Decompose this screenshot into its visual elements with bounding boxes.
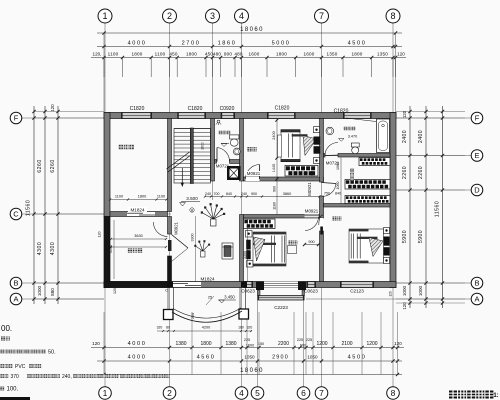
exterior wall bottom sunroom dark	[104, 282, 170, 288]
svg-text:M1824: M1824	[200, 277, 214, 282]
svg-text:1100: 1100	[115, 195, 123, 199]
svg-text:4: 4	[239, 11, 244, 21]
svg-text:3630: 3630	[134, 234, 142, 238]
grid bubble 2 bottom	[163, 387, 176, 400]
svg-text:480: 480	[234, 52, 243, 57]
svg-text:1380: 1380	[175, 341, 186, 347]
svg-text:900: 900	[273, 186, 277, 192]
svg-text:1200: 1200	[316, 341, 327, 347]
storage dim chain	[110, 199, 167, 201]
title second floor plan	[449, 391, 457, 399]
svg-text:8: 8	[390, 11, 395, 21]
svg-text:4: 4	[239, 388, 244, 398]
armchair hall	[222, 243, 233, 259]
svg-text:1060: 1060	[336, 162, 340, 170]
bed bedroom3	[349, 229, 384, 263]
wardrobe cloakroom row1	[359, 158, 390, 166]
svg-text:C2223: C2223	[274, 305, 288, 310]
svg-text:600: 600	[300, 344, 306, 348]
desk bedroom1	[278, 135, 282, 157]
bay window opening gap	[264, 282, 298, 288]
exterior wall bottom	[104, 282, 396, 288]
door label M0721 bath2	[325, 161, 340, 166]
grid bubble 6 bottom	[297, 387, 310, 400]
balcony wall stub right	[241, 282, 247, 288]
svg-text:F: F	[14, 114, 19, 123]
bay window side walls	[258, 290, 261, 296]
svg-text:B: B	[13, 279, 18, 288]
svg-text:5000: 5000	[272, 41, 291, 47]
svg-text:1800: 1800	[131, 52, 142, 57]
balcony column right	[239, 309, 249, 319]
svg-text:120: 120	[394, 341, 402, 346]
dim 3300 bedroom2 rotated	[247, 219, 249, 281]
interior wall 3 stair right	[211, 119, 215, 182]
svg-text:4300: 4300	[50, 242, 56, 256]
svg-text:120: 120	[402, 110, 407, 118]
svg-text:120: 120	[389, 291, 393, 297]
sink bath1	[233, 148, 240, 155]
svg-text:450: 450	[169, 52, 178, 57]
room label cloakroom rotated	[350, 169, 354, 173]
dims 1060 cloakroom	[340, 158, 342, 204]
interior wall 2 upper	[168, 119, 172, 212]
svg-text:120: 120	[113, 288, 117, 294]
svg-text:1200: 1200	[366, 341, 377, 347]
bottom dim row1 line	[91, 347, 404, 349]
svg-text:4500: 4500	[348, 355, 367, 361]
balcony railing arcs	[172, 311, 242, 322]
svg-text:240: 240	[241, 192, 247, 196]
svg-text:1100: 1100	[155, 52, 166, 57]
grid bubble F left	[10, 112, 22, 124]
staircase outline	[174, 129, 211, 184]
shower rod bath2	[346, 118, 376, 122]
svg-text:1050: 1050	[244, 355, 255, 360]
grid line 8	[392, 23, 394, 387]
grid line 3	[212, 23, 214, 200]
door arc storage M1824	[153, 222, 167, 237]
svg-text:1: 1	[102, 11, 107, 21]
window C0623 left	[243, 282, 253, 288]
door label M1824 storage	[128, 207, 147, 213]
toilet bath1	[230, 135, 239, 139]
staircase center rail	[190, 128, 193, 184]
svg-text:1800: 1800	[138, 195, 146, 199]
svg-text:2700: 2700	[182, 41, 201, 47]
svg-text:8: 8	[391, 388, 396, 398]
svg-text:3300: 3300	[191, 234, 195, 242]
svg-text:3.500: 3.500	[186, 196, 198, 201]
corridor dim chain left	[205, 196, 247, 198]
svg-text:1445: 1445	[272, 164, 276, 172]
grid bubble A right	[471, 293, 483, 305]
svg-text:3: 3	[210, 11, 215, 21]
bay window front wall C2223	[258, 296, 305, 301]
svg-text:C1820: C1820	[275, 106, 290, 112]
grid line B	[22, 282, 471, 284]
svg-text:1100: 1100	[108, 52, 119, 57]
door label M0921 bedroom1	[246, 171, 261, 176]
svg-text:1800: 1800	[200, 341, 211, 347]
svg-text:5: 5	[255, 388, 260, 398]
corridor dim chain main	[247, 196, 320, 198]
door M0721 bath1	[216, 148, 218, 162]
svg-text:120: 120	[92, 341, 100, 346]
bedside unit bedroom1	[314, 127, 320, 133]
svg-text:5900: 5900	[418, 230, 424, 243]
svg-text:225: 225	[306, 338, 312, 342]
bottom total dim line 18060	[97, 374, 402, 376]
svg-text:120: 120	[98, 232, 102, 238]
svg-text:6: 6	[301, 388, 306, 398]
svg-text:4000: 4000	[128, 41, 147, 47]
level mark bath1	[221, 144, 227, 147]
exterior wall right	[390, 113, 396, 288]
svg-text:2400: 2400	[402, 130, 408, 143]
interior wall 7	[320, 119, 324, 183]
plant hall small	[194, 240, 210, 257]
svg-text:840: 840	[335, 192, 341, 196]
svg-text:240: 240	[205, 192, 211, 196]
svg-text:2900: 2900	[272, 355, 289, 361]
bedside unit bedroom2	[246, 231, 253, 238]
notes line3	[0, 350, 4, 354]
svg-text:PVC: PVC	[15, 364, 26, 370]
svg-text:1060: 1060	[336, 182, 340, 190]
grid bubble 8 top	[386, 9, 400, 23]
svg-text:A: A	[13, 295, 18, 304]
svg-text:1860: 1860	[218, 41, 237, 47]
dim 900 bedroom2 door	[305, 244, 319, 246]
svg-text:120,: 120,	[93, 52, 102, 57]
svg-text:C1820: C1820	[334, 109, 349, 115]
grid line E	[323, 155, 471, 157]
grid line D	[390, 189, 471, 191]
exterior wall left sunroom dark	[104, 217, 110, 288]
door M0921 corridor-cloakroom	[322, 183, 337, 184]
svg-text:370: 370	[11, 374, 20, 380]
svg-text:2: 2	[167, 11, 172, 21]
door M0921 sunroom	[172, 235, 189, 249]
svg-text:240,: 240,	[62, 374, 72, 380]
window C0920 bath1	[221, 113, 235, 119]
dim 4190 sunroom rotated	[113, 220, 115, 279]
svg-text:4000: 4000	[128, 355, 147, 361]
door label M0721 bath1	[215, 164, 230, 169]
dim 3630 sunroom	[111, 238, 166, 240]
grid line 7	[321, 23, 323, 387]
svg-text:A: A	[474, 295, 479, 304]
notes line5	[0, 374, 4, 378]
bottom extension comb	[103, 312, 105, 375]
svg-text:225: 225	[297, 338, 303, 342]
interior wall bedroom1 bottom	[244, 177, 324, 181]
svg-text:1000: 1000	[37, 285, 42, 296]
svg-text:2: 2	[167, 388, 172, 398]
wardrobe bedroom2	[244, 219, 276, 229]
top extension comb	[103, 58, 105, 78]
svg-text:6260: 6260	[50, 159, 56, 173]
grid bubble 4 top	[235, 9, 249, 23]
svg-text:900: 900	[224, 52, 233, 57]
svg-text:M1824: M1824	[130, 208, 144, 213]
svg-text:1350: 1350	[377, 52, 388, 57]
interior wall corridor bottom	[244, 215, 320, 219]
interior wall 4 lower bedroom2 left	[240, 215, 244, 282]
svg-text:1350: 1350	[326, 52, 337, 57]
svg-text:2400: 2400	[418, 130, 424, 143]
interior wall bath1 bottom	[215, 160, 217, 164]
svg-text:4300: 4300	[37, 242, 43, 256]
svg-text:900: 900	[308, 240, 314, 244]
room label bedroom3	[333, 217, 337, 221]
notes line4	[0, 364, 4, 368]
grid bubble A left	[10, 293, 22, 305]
svg-text:6260: 6260	[37, 159, 43, 173]
left dim connectors	[34, 111, 104, 113]
window C2123	[340, 282, 374, 288]
room label bath1	[219, 131, 222, 134]
door M0921 bedroom2	[305, 215, 319, 219]
top dim row1 line	[97, 46, 402, 48]
svg-text:M0921: M0921	[247, 171, 261, 176]
right dim lines	[409, 106, 411, 308]
grid bubble F right	[471, 112, 483, 124]
svg-text:3.450: 3.450	[224, 295, 235, 300]
staircase arrow	[181, 168, 183, 184]
svg-text:C: C	[13, 210, 19, 219]
svg-text:11560: 11560	[435, 201, 441, 218]
grid line C	[22, 213, 171, 215]
sunroom second dim line	[111, 246, 166, 248]
bed bedroom2	[253, 232, 286, 266]
svg-text:11560: 11560	[26, 200, 32, 217]
svg-text:1800: 1800	[186, 52, 197, 57]
interior wall cloakroom bottom	[324, 204, 391, 208]
bed bedroom1	[281, 130, 300, 162]
svg-text:B: B	[474, 279, 479, 288]
grid line 6	[303, 281, 305, 387]
grid bubble 7 bottom	[315, 387, 328, 400]
wardrobe cloakroom row3	[345, 196, 390, 204]
svg-text:C2123: C2123	[350, 289, 364, 294]
svg-text:750: 750	[324, 192, 330, 196]
svg-text:180: 180	[238, 326, 244, 330]
svg-text:120: 120	[397, 52, 405, 57]
svg-text:1600: 1600	[248, 52, 259, 57]
svg-text:1: 1	[103, 388, 108, 398]
svg-text:4500: 4500	[348, 41, 367, 47]
svg-text:480: 480	[213, 52, 222, 57]
svg-text:120: 120	[402, 302, 407, 310]
svg-text:2600: 2600	[201, 142, 205, 150]
window C1820 stairs	[177, 113, 206, 119]
svg-text:1180: 1180	[273, 202, 277, 210]
corridor vertical dims	[276, 181, 278, 215]
grid bubble B left	[10, 277, 22, 289]
window C1820 bath2	[343, 113, 372, 119]
grid line 4	[241, 23, 243, 387]
plant hall large	[201, 203, 225, 226]
svg-text:F: F	[475, 114, 480, 123]
interior dim line bedroom1	[276, 119, 278, 182]
wardrobe cloakroom row2	[345, 180, 390, 190]
top dim row2 line	[91, 57, 406, 59]
svg-text:C0623: C0623	[304, 289, 318, 294]
svg-text:2400: 2400	[272, 131, 276, 139]
svg-text:00.: 00.	[1, 324, 12, 333]
svg-text:1600: 1600	[303, 52, 314, 57]
window C1820 bedroom1	[267, 113, 296, 119]
grid bubble C left	[10, 208, 22, 220]
svg-text:C1820: C1820	[130, 106, 145, 112]
grid line A	[22, 298, 104, 300]
grid line 5	[257, 281, 259, 387]
svg-text:1800: 1800	[276, 52, 287, 57]
svg-text:2260: 2260	[402, 166, 408, 179]
svg-text:M0921: M0921	[307, 182, 312, 196]
svg-text:C0920: C0920	[220, 106, 235, 112]
balcony column left	[164, 310, 174, 320]
interior wall 4 upper	[240, 119, 244, 182]
window C1820 storage	[121, 113, 152, 119]
room label storage	[119, 145, 123, 149]
grid bubble 2 top	[163, 9, 177, 23]
svg-text:4200: 4200	[202, 326, 210, 330]
svg-text:320: 320	[247, 326, 253, 330]
window C0623 right	[307, 282, 317, 288]
svg-text:1100: 1100	[157, 195, 165, 199]
balcony leader line	[206, 296, 214, 305]
room label bedroom2	[289, 241, 293, 245]
svg-text:5900: 5900	[402, 230, 408, 243]
interior wall bath2 bottom	[324, 154, 326, 158]
bedside unit bedroom3	[384, 228, 390, 234]
exterior wall left	[104, 113, 110, 217]
room label sunroom	[128, 248, 132, 252]
grid bubble B right	[471, 277, 483, 289]
door bedroom3 leaf	[320, 218, 323, 231]
svg-text:4000: 4000	[128, 341, 147, 347]
svg-text:1050: 1050	[307, 355, 318, 360]
grid bubble D right	[471, 184, 483, 196]
svg-text:3.470: 3.470	[348, 135, 358, 139]
corner mark bottom-left	[0, 397, 30, 400]
svg-text:700: 700	[214, 192, 220, 196]
left dim lines	[33, 106, 35, 304]
balcony side edges	[167, 288, 169, 310]
svg-text:1:: 1:	[493, 393, 498, 399]
svg-text:80: 80	[166, 326, 170, 330]
svg-text:1000: 1000	[418, 285, 423, 296]
svg-text:100.: 100.	[7, 387, 19, 393]
svg-text:M0921: M0921	[174, 221, 179, 234]
dim 3300 hall rotated	[195, 216, 197, 281]
callout circle 8 hall	[190, 208, 194, 212]
room label bedroom1	[247, 147, 251, 151]
chair bedroom2	[288, 246, 297, 254]
interior wall 2 lower sunroom	[168, 217, 172, 235]
svg-text:900: 900	[251, 192, 257, 196]
notes line2	[1, 337, 5, 341]
svg-text:3300: 3300	[243, 251, 247, 259]
svg-text:C0623: C0623	[241, 289, 255, 294]
grid bubble 1 top	[98, 9, 112, 23]
right dim connectors	[396, 111, 465, 113]
svg-text:1380: 1380	[225, 341, 236, 347]
bay window column left	[256, 282, 264, 291]
svg-text:18060: 18060	[240, 27, 264, 33]
balcony dim line	[157, 330, 252, 332]
svg-text:18060: 18060	[240, 368, 264, 374]
svg-text:4190: 4190	[109, 245, 113, 253]
svg-text:M0921: M0921	[305, 209, 319, 214]
svg-text:254: 254	[191, 313, 195, 319]
svg-text:120: 120	[50, 104, 55, 112]
grid bubble 5 bottom	[251, 387, 264, 400]
shaft flue	[227, 166, 241, 180]
wardrobe bedroom1	[285, 166, 318, 177]
bathtub bath2	[377, 119, 390, 153]
staircase treads	[174, 129, 211, 180]
grid bubble 8 bottom	[387, 387, 400, 400]
notes line6	[0, 387, 4, 391]
door M0721 bath2	[325, 154, 338, 156]
door M1824 storage sliding	[127, 212, 155, 216]
svg-text:3860: 3860	[283, 192, 291, 196]
top total dim line 18060	[97, 32, 402, 34]
shower head bath1	[217, 120, 220, 123]
svg-text:840: 840	[226, 192, 232, 196]
svg-text:4560: 4560	[197, 355, 216, 361]
bay window column right	[298, 282, 306, 291]
svg-text:320: 320	[157, 326, 163, 330]
svg-text:50.: 50.	[48, 350, 56, 356]
grid bubble 7 top	[315, 9, 329, 23]
svg-text:880: 880	[50, 288, 55, 296]
grid line 2	[169, 23, 171, 387]
svg-text:1000: 1000	[402, 285, 407, 296]
svg-text:E: E	[474, 151, 479, 160]
svg-text:2200: 2200	[278, 341, 289, 347]
balcony wall stub left	[167, 282, 174, 288]
grid line 1	[104, 23, 106, 113]
sink bath2	[326, 127, 334, 135]
svg-text:C1820: C1820	[188, 106, 203, 112]
staircase break line	[168, 155, 191, 172]
room label bath2	[344, 127, 347, 130]
svg-text:7: 7	[319, 11, 324, 21]
balcony door M1824 sliding	[172, 282, 201, 287]
grid line F	[22, 117, 471, 119]
grid bubble E right	[471, 150, 483, 162]
toilet bath2	[351, 143, 359, 147]
grid bubble 4 bottom	[235, 387, 248, 400]
grid bubble 1 bottom	[99, 387, 112, 400]
interior wall C storage bottom	[110, 212, 168, 217]
svg-text:2100: 2100	[341, 341, 352, 347]
grid bubble 3 top	[206, 9, 220, 23]
exterior wall top	[104, 113, 396, 119]
bottom dim row2 line	[97, 360, 402, 362]
svg-text:7: 7	[319, 388, 324, 398]
svg-text:D: D	[474, 186, 480, 195]
svg-text:1800: 1800	[351, 52, 362, 57]
door M0921 bedroom1	[246, 177, 260, 181]
svg-text:2260: 2260	[418, 166, 424, 179]
